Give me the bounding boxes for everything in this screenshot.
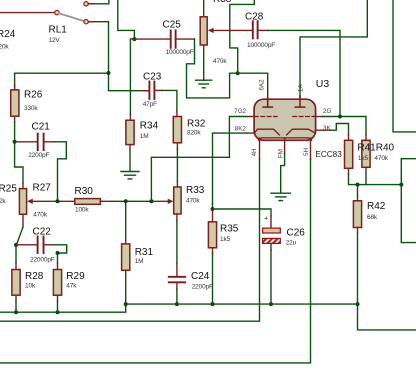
svg-text:C24: C24 (191, 271, 210, 282)
wire C25 right plate zigzag to anode node (176, 38, 195, 40)
svg-text:22u: 22u (286, 239, 297, 246)
node R28/busA (14, 310, 18, 314)
resistor R26 (11, 90, 19, 116)
svg-text:R26: R26 (24, 90, 43, 101)
wire C26 bottom to bus1 (270, 243, 272, 250)
svg-text:C22: C22 (33, 226, 52, 237)
node C26/bus1 (269, 302, 273, 306)
potentiometer top feed wire from top edge (203, 0, 205, 17)
wire R33 bottom to C24 (176, 214, 178, 221)
wire R32 bottom down to R33 top (176, 143, 178, 149)
wire wiper to C28 left plate (213, 29, 252, 31)
resistor R31 (122, 244, 130, 270)
svg-text:+: + (264, 214, 269, 223)
node R31 top (124, 199, 128, 203)
node R31/bus1 (124, 302, 128, 306)
node R29/busA (56, 310, 60, 314)
svg-text:100k: 100k (75, 206, 89, 213)
relay RL1 terminal T3 (84, 2, 88, 6)
svg-text:22k: 22k (0, 198, 6, 205)
pin stub R35 top (212, 209, 214, 222)
svg-text:1A: 1A (298, 84, 305, 92)
wire 3K pin zigzag to R41 top (315, 129, 330, 131)
resistor R35 (208, 222, 216, 248)
tube anode pin 6A2 (263, 96, 272, 107)
potentiometer (top, ref cut off) body (200, 17, 207, 45)
svg-text:47pF: 47pF (143, 101, 157, 108)
svg-text:12V: 12V (49, 37, 61, 44)
wire middle heater pin to ground (284, 138, 286, 154)
wire R29 bottom to bus A (57, 295, 59, 301)
node C24/bus1 (175, 302, 179, 306)
svg-text:R38: R38 (213, 0, 232, 5)
node R42/bus1 (356, 302, 360, 306)
potentiometer wiper arrow (208, 28, 214, 33)
svg-text:R30: R30 (75, 186, 94, 197)
node R35 top / C26 (211, 207, 215, 211)
svg-text:C25: C25 (163, 19, 182, 30)
svg-text:FM: FM (277, 149, 284, 158)
capacitor C28 (253, 21, 258, 38)
wire from top edge elbow into C25 node (118, 0, 135, 39)
svg-text:R41R40: R41R40 (357, 143, 394, 154)
pin stub R34 top (129, 115, 131, 121)
capacitor C23 (149, 82, 154, 100)
svg-text:R27: R27 (33, 182, 52, 193)
wire from right edge through node down and out right (401, 159, 416, 243)
svg-text:R34: R34 (140, 120, 159, 131)
wire R31 bottom to bus1 node (125, 270, 127, 276)
svg-text:100000pF: 100000pF (166, 49, 194, 56)
vacuum tube U3 body (254, 99, 316, 140)
svg-text:1k5: 1k5 (358, 155, 369, 162)
ground below top potentiometer (196, 80, 212, 88)
capacitor C26 bottom plate hatched (263, 238, 281, 243)
svg-text:R24: R24 (0, 29, 16, 40)
wire node to C26 top (213, 209, 272, 216)
wire tube cathode 8K2 to R35 column (247, 132, 255, 134)
relay RL1 terminal T2 (84, 20, 88, 24)
svg-text:470k: 470k (33, 212, 47, 219)
svg-text:470k: 470k (374, 155, 388, 162)
resistor R30 horizontal (75, 199, 101, 205)
wire junction down to C23 horizontal (109, 73, 150, 91)
capacitor C22 (38, 237, 44, 254)
wire top potentiometer bottom to ground (203, 45, 205, 51)
resistor R34 (126, 120, 134, 144)
wire R26 bottom to C21 node (14, 116, 16, 122)
wire red stub at T2 (88, 21, 94, 23)
wire bus A (0, 304, 126, 312)
svg-text:2200pF: 2200pF (192, 283, 213, 290)
svg-text:6A2: 6A2 (259, 79, 266, 91)
svg-text:68k: 68k (367, 214, 378, 221)
svg-text:1k5: 1k5 (220, 236, 231, 243)
wire C25 node jog down to R34 top (130, 39, 134, 115)
svg-text:C28: C28 (245, 12, 264, 23)
pin stub R26 top (14, 85, 16, 90)
wire R25 bottom diagonal to C22 node (22, 214, 24, 227)
wire C21 right plate zigzag to R30 node (44, 141, 55, 143)
svg-text:R35: R35 (220, 224, 239, 235)
wire anode node up to top edge (230, 0, 255, 73)
wire R41 bottom to cathode rail (348, 168, 350, 174)
wire grid node up over to tube grid 7G2 (151, 117, 246, 202)
wire R28 bottom to bus A (15, 295, 17, 301)
svg-text:R33: R33 (186, 185, 205, 196)
tube heater base line (258, 138, 311, 140)
svg-text:7G2: 7G2 (234, 108, 246, 115)
resistor R42 (353, 201, 361, 228)
svg-text:47k: 47k (66, 282, 77, 289)
wire 1A anode feed from top edge (300, 0, 367, 98)
wire red stub at T3 (88, 3, 94, 5)
svg-text:2200pF: 2200pF (28, 152, 49, 159)
svg-text:R42: R42 (367, 201, 386, 212)
node R35/bus1 (211, 302, 215, 306)
wire node to C22 left plate (16, 244, 38, 246)
svg-text:22000pF: 22000pF (30, 256, 55, 263)
wire feed to relay RL1 from left edge (0, 12, 55, 14)
potentiometer R25 body (19, 189, 26, 215)
wire from T3 up to top edge (88, 0, 109, 4)
wire C22 right plate elbow to R29 column (44, 244, 53, 246)
potentiometer R33 body (174, 187, 181, 214)
wire 2G node to R40 top (340, 117, 366, 136)
pin stub 7G2 (247, 116, 255, 118)
svg-text:1M: 1M (140, 133, 149, 140)
svg-text:1M: 1M (135, 258, 144, 265)
node grid feed (149, 199, 153, 203)
relay RL1 terminal T1 (55, 10, 59, 14)
wire 2G pin to node (315, 116, 322, 118)
wire from T2 down to junction (88, 22, 108, 73)
svg-text:10k: 10k (25, 282, 36, 289)
wire cathode rail (358, 184, 402, 186)
ground below tube (271, 193, 290, 200)
wire C23 right plate to R32 top (154, 89, 162, 91)
svg-text:2G: 2G (323, 108, 331, 115)
wire left heater pin down to bus B (259, 138, 261, 159)
node C22 left (14, 243, 18, 247)
wire R35 bottom to bus1 (212, 248, 214, 254)
node 2G/C28 (338, 115, 342, 119)
wire node down to R42 top (357, 185, 359, 196)
ground below R34 (121, 172, 139, 179)
svg-text:4H: 4H (251, 148, 258, 156)
svg-text:C21: C21 (32, 121, 51, 132)
capacitor C26 top plate (263, 228, 281, 233)
wire C25 left plate to node (134, 38, 170, 40)
tube anode pin 1A (295, 96, 304, 107)
svg-text:R28: R28 (25, 271, 44, 282)
svg-text:330k: 330k (24, 105, 38, 112)
node cathode rail / R42 (356, 183, 360, 187)
capacitor C24 (169, 277, 186, 283)
R33 wiper arrow (168, 199, 174, 204)
resistor R29 (53, 270, 61, 296)
svg-text:U3: U3 (316, 78, 330, 90)
node C22/R29 (56, 251, 60, 255)
svg-text:470k: 470k (186, 197, 200, 204)
wire C21 node down to R25 pot top (15, 142, 23, 184)
tube cathode left (254, 129, 279, 135)
svg-text:20k: 20k (0, 44, 9, 51)
svg-text:8K2: 8K2 (235, 125, 247, 132)
svg-text:100000pF: 100000pF (247, 42, 275, 49)
node at RL1/R26 junction (107, 71, 111, 75)
svg-text:5H: 5H (303, 148, 310, 156)
wire R31 top from node (125, 201, 127, 238)
resistor R28 (12, 270, 20, 296)
wire node down to R29 top (57, 253, 59, 264)
wire R30 right toward R33 with nodes (100, 200, 112, 202)
wire R26 top to RL1 junction (15, 73, 109, 90)
wire R34 bottom to ground (129, 145, 131, 151)
capacitor C25 (171, 30, 176, 47)
wire node to tube anode pin 6A2 (238, 73, 268, 98)
wire C28 right plate down to 2G node (258, 29, 268, 31)
wire R40 bottom to cathode rail (365, 167, 367, 173)
capacitor C21 (38, 134, 44, 151)
pin stub C23 left (141, 90, 149, 92)
R25 wiper arrow (27, 199, 33, 204)
svg-text:ECC83: ECC83 (315, 150, 342, 159)
svg-text:C23: C23 (143, 71, 162, 82)
wire bus1 (126, 303, 358, 305)
tube grid dashed line right (293, 116, 315, 118)
node R30 left (56, 199, 60, 203)
svg-text:C26: C26 (287, 227, 306, 238)
wire right vertical from top edge exiting right (393, 0, 416, 132)
node above tube anode 6A2 (236, 71, 240, 75)
wire right heater pin down to bus C (310, 138, 312, 159)
tube grid dashed line left (255, 116, 278, 118)
svg-text:470k: 470k (213, 58, 227, 65)
node at C25 left (132, 37, 136, 41)
svg-text:R29: R29 (66, 271, 85, 282)
resistor R40 (362, 140, 370, 167)
svg-text:R31: R31 (135, 247, 154, 258)
wire R42 bottom to bus and out right (357, 228, 359, 234)
svg-text:820k: 820k (187, 130, 201, 137)
svg-text:RL1: RL1 (49, 25, 68, 36)
svg-text:R25: R25 (0, 184, 17, 195)
svg-text:3K: 3K (323, 125, 331, 132)
relay RL1 switch blade (59, 13, 84, 21)
resistor R41 (345, 140, 353, 168)
node cathode rail / right edge feed (399, 183, 403, 187)
wire node to C21 left plate (15, 141, 38, 143)
svg-text:R32: R32 (187, 118, 206, 129)
wire wiper to R30 left node (32, 200, 75, 202)
tube cathode right (287, 129, 316, 135)
node C21 left (13, 140, 17, 144)
wire C24 bottom to bus1 (176, 282, 178, 289)
resistor R32 (173, 117, 181, 143)
